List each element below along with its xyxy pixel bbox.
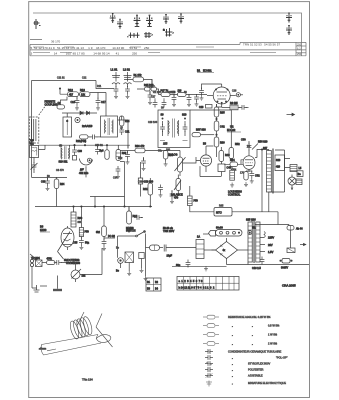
- resistor R61: [79, 207, 89, 237]
- wire af input run: [145, 151, 180, 158]
- divider ladder C42: [214, 117, 225, 131]
- capacitor C34: [116, 166, 121, 179]
- svg-text:R65: R65: [219, 205, 224, 208]
- svg-text:S12: S12: [30, 142, 35, 145]
- svg-text:4k7: 4k7: [69, 94, 74, 97]
- rod dimension label: [39, 347, 56, 351]
- tube B1 label: [197, 69, 214, 73]
- header tick: [30, 39, 42, 41]
- svg-text:CONTROL: CONTROL: [228, 194, 241, 197]
- volume pot R40: [168, 154, 186, 173]
- svg-text:R11: R11: [97, 85, 102, 88]
- svg-text:ECH81: ECH81: [203, 69, 212, 73]
- svg-text:R24: R24: [125, 120, 130, 123]
- terminal box Bo1: [297, 171, 303, 177]
- label U2 ECL82: [227, 125, 241, 133]
- svg-text:B6: B6: [40, 225, 44, 229]
- diode GR2: [82, 111, 93, 128]
- wire top rail: [32, 80, 97, 82]
- svg-text:TRN 51 52 53 54 55 56 57: TRN 51 52 53 54 55 56 57: [243, 43, 280, 47]
- svg-text:COUPLING: COUPLING: [45, 104, 58, 107]
- ground mains: [144, 276, 148, 281]
- capacitor C17: [96, 93, 107, 111]
- svg-text:C10 2.5: C10 2.5: [252, 267, 261, 270]
- legend electrolytic capacitor: [206, 381, 286, 387]
- svg-text:R1 27k: R1 27k: [134, 74, 143, 77]
- resistor R34: [54, 177, 65, 206]
- capacitor C40: [160, 121, 165, 136]
- tube B1 ECH81: [207, 84, 236, 104]
- resistor R27: [161, 89, 171, 96]
- wire T5 top: [252, 220, 289, 225]
- pointer a2: [300, 243, 306, 245]
- resistor R31: [105, 145, 109, 160]
- svg-text:„: „: [252, 325, 253, 328]
- svg-text:C8 470: C8 470: [56, 169, 64, 172]
- svg-text:S10: S10: [182, 114, 187, 117]
- svg-text:TRn 134: TRn 134: [82, 378, 93, 382]
- svg-text:R54: R54: [230, 159, 235, 162]
- svg-text:3 14: 3 14 165 85 17 85 14 68 95 14 41 250: [31, 51, 138, 55]
- capacitor C56: [102, 235, 116, 251]
- svg-text:2xAA119: 2xAA119: [82, 124, 93, 128]
- svg-text:„: „: [232, 369, 233, 372]
- label mains voltage: [163, 227, 175, 233]
- oscillator label: [30, 140, 35, 146]
- capacitor C33: [41, 177, 50, 190]
- resistor R1: [133, 74, 144, 82]
- inductor L1: [111, 68, 121, 85]
- capacitor C15: [125, 84, 130, 99]
- resistor R41: [143, 183, 153, 195]
- resistor R36: [135, 145, 145, 153]
- resistor R14: [57, 102, 65, 109]
- node HT4: [150, 206, 151, 207]
- svg-text:CONDENSATEUR CERAMIQUE TUBUL: CONDENSATEUR CERAMIQUE TUBULAIRE: [228, 350, 281, 354]
- legend resistor 0.25W: [203, 315, 271, 319]
- svg-text:250: 250: [297, 43, 302, 46]
- svg-text:BF: BF: [80, 168, 84, 172]
- svg-text:452 kc/s: 452 kc/s: [79, 172, 89, 175]
- output transformer T4 secondary: [275, 155, 285, 171]
- capacitor C23: [171, 91, 176, 107]
- resistor R57: [244, 172, 248, 187]
- resistor R28: [178, 89, 187, 96]
- secondary tap 225V: [260, 232, 274, 240]
- node HT1: [73, 206, 74, 207]
- wire if bottom: [32, 162, 68, 177]
- leader R56: [252, 144, 258, 150]
- capacitor C27: [151, 96, 157, 108]
- wire triode anode: [206, 145, 214, 147]
- svg-text:R32: R32: [118, 157, 123, 160]
- svg-text:R35: R35: [220, 112, 225, 115]
- wire mixer grid: [118, 116, 129, 149]
- capacitor C67: [252, 257, 264, 271]
- svg-text:C39 4n7: C39 4n7: [138, 181, 148, 184]
- svg-text:1.5V: 1.5V: [268, 250, 274, 254]
- svg-text:C26: C26: [232, 90, 237, 93]
- svg-text:R52: R52: [235, 143, 240, 146]
- terminal box Bo2: [296, 179, 302, 185]
- svg-text:R56 820: R56 820: [258, 141, 268, 144]
- svg-text:Ah 44: Ah 44: [296, 228, 303, 231]
- pickup terminal box: [30, 257, 42, 267]
- wire af drops: [150, 166, 200, 206]
- capacitor C14: [114, 84, 119, 99]
- svg-text:AJUSTABLE: AJUSTABLE: [248, 374, 263, 378]
- capacitor C26b: [199, 105, 212, 110]
- terminal strip TB1: [196, 236, 216, 259]
- svg-text:CRA 2085: CRA 2085: [282, 284, 296, 288]
- svg-text:EZ80: EZ80: [40, 228, 47, 232]
- svg-text:170: 170: [240, 172, 245, 175]
- ferrite rod tip loop: [96, 335, 111, 343]
- capacitor C50: [241, 139, 251, 151]
- wire osc to IFT: [39, 145, 131, 149]
- legend styroflex capacitor: [205, 361, 270, 366]
- legend ceramic capacitor: [205, 349, 281, 354]
- svg-text:B1: B1: [197, 69, 201, 73]
- resistor R13: [80, 88, 91, 97]
- mains plug Bo: [116, 236, 123, 273]
- voltage selector VS1: [203, 227, 242, 237]
- socket symbol SK2: [144, 32, 153, 38]
- trap coil F1: [63, 113, 72, 137]
- svg-text:NTC: NTC: [216, 211, 222, 215]
- aerial leader line: [39, 105, 46, 115]
- secondary tap 20V: [260, 243, 273, 247]
- svg-text:POLYESTER: POLYESTER: [248, 368, 264, 372]
- capacitor C25: [194, 94, 199, 106]
- svg-text:5 51 12 170 41 9 51 15 43 1: 5 51 12 170 41 9 51 15 43 170 41 13 1 9 …: [31, 46, 150, 50]
- node HT2: [94, 206, 95, 207]
- svg-text:P50: P50: [194, 200, 199, 203]
- capacitor C60: [54, 260, 62, 265]
- svg-text:R39: R39: [220, 142, 225, 145]
- svg-text:35n: 35n: [158, 150, 163, 153]
- svg-text:36 170: 36 170: [51, 40, 61, 44]
- svg-text:„: „: [252, 343, 253, 346]
- socket symbol SK1: [127, 33, 140, 39]
- svg-text:≤5mm: ≤5mm: [39, 347, 46, 351]
- svg-text:C50: C50: [241, 139, 246, 142]
- transistor pinout TS3: [134, 15, 141, 27]
- svg-text:20V: 20V: [268, 243, 273, 247]
- svg-text:R36 47k: R36 47k: [135, 145, 145, 148]
- capacitor C36: [141, 157, 146, 171]
- svg-text:C17: C17: [101, 101, 106, 104]
- pot R71: [71, 269, 86, 279]
- pointer a: [287, 113, 295, 116]
- svg-text:C16: C16: [71, 101, 76, 104]
- voltage table row 1 mid rules: [33, 46, 214, 48]
- capacitor C16: [71, 97, 80, 111]
- resistor R37: [192, 133, 214, 137]
- svg-text:863: 863: [78, 221, 83, 224]
- capacitor C52: [246, 171, 260, 184]
- label loudness: [228, 191, 242, 197]
- indicator lamp LA1: [248, 227, 256, 235]
- valve table legend box: [146, 278, 161, 291]
- resistor R38: [163, 151, 174, 167]
- header strip top rule: [33, 13, 302, 56]
- svg-text:„: „: [232, 343, 233, 346]
- legend paper capacitor: [205, 355, 288, 360]
- resistor R60: [71, 207, 83, 228]
- svg-text:L2 S2: L2 S2: [123, 68, 130, 72]
- svg-text:„: „: [232, 325, 233, 328]
- fuse F1: [146, 245, 164, 250]
- resistor R24: [120, 116, 131, 126]
- svg-text:„: „: [232, 382, 233, 385]
- antenna coil winding: [69, 316, 94, 340]
- wire AF input: [120, 150, 135, 152]
- svg-text:DC 32: DC 32: [108, 235, 115, 238]
- capacitor C38b: [138, 162, 153, 197]
- capacitor C29: [161, 98, 166, 110]
- ferrite rod left end: [41, 345, 43, 356]
- crystal X1: [34, 19, 41, 29]
- svg-text:C29 100: C29 100: [148, 121, 158, 124]
- oscillator coil box: [30, 146, 39, 158]
- legend resistor 2W: [203, 342, 278, 346]
- svg-text:5p6: 5p6: [100, 150, 105, 153]
- capacitor C65: [164, 245, 196, 258]
- output transformer T4: [263, 147, 271, 192]
- svg-text:C55: C55: [73, 242, 78, 245]
- trimmer C7: [31, 158, 38, 174]
- transformer T4 core: [272, 149, 273, 194]
- svg-text:C26: C26: [199, 106, 204, 109]
- svg-text:S28: S28: [276, 159, 281, 162]
- svg-text:470k: 470k: [231, 169, 237, 172]
- ground bus: [204, 266, 208, 271]
- svg-text:1 W 5%: 1 W 5%: [268, 333, 278, 337]
- ferrite rod body: [42, 335, 102, 356]
- resistor R33: [116, 145, 127, 160]
- svg-text:MW 803: MW 803: [196, 128, 206, 132]
- resistor R25: [144, 84, 157, 91]
- svg-text:8k2: 8k2: [96, 231, 101, 234]
- svg-text:C34: C34: [113, 177, 118, 180]
- wire T4 to LS: [285, 159, 293, 178]
- IF transformer T1: [59, 145, 70, 163]
- label B6: [40, 225, 50, 233]
- svg-text:0.5 W 5%: 0.5 W 5%: [268, 324, 280, 328]
- svg-text:MINIATURE ELECTROLYTIQUE: MINIATURE ELECTROLYTIQUE: [248, 381, 286, 385]
- wire screen drop: [120, 145, 128, 196]
- svg-text:50µ: 50µ: [85, 242, 90, 245]
- capacitor C25b: [199, 88, 204, 101]
- svg-text:„: „: [232, 375, 233, 378]
- ferrite aerial unit box: [29, 117, 39, 143]
- svg-text:"POL-UP": "POL-UP": [276, 356, 288, 360]
- bridge rectifier GR5: [212, 238, 249, 265]
- svg-text:R6 1k5: R6 1k5: [230, 102, 238, 105]
- secondary tap 15V: [260, 250, 274, 254]
- coil leader a: [78, 312, 85, 325]
- transistor pinout TS8: [286, 25, 292, 35]
- svg-text:R2 220: R2 220: [153, 91, 161, 94]
- svg-text:C21: C21: [125, 131, 130, 134]
- label mains switch: [126, 227, 136, 233]
- voltage table right box text: [297, 43, 302, 56]
- capacitor C45: [218, 162, 232, 177]
- mains transformer T5 primary: [246, 219, 256, 263]
- terminal bar TB2: [53, 282, 62, 291]
- capacitor C47: [170, 190, 175, 204]
- svg-text:C33: C33: [41, 181, 46, 184]
- svg-text:R21(P18): R21(P18): [76, 140, 86, 143]
- svg-text:U2: U2: [230, 125, 234, 129]
- capacitor C19: [88, 135, 101, 140]
- resistor R70: [42, 257, 55, 264]
- wire box top out: [190, 110, 231, 139]
- svg-text:R3 1k: R3 1k: [168, 91, 175, 94]
- svg-text:TRN 220V: TRN 220V: [163, 230, 175, 233]
- capacitor C41: [183, 121, 188, 136]
- svg-text:C12: C12: [82, 77, 87, 80]
- voltage table frame: [30, 42, 306, 55]
- capacitor C31: [95, 145, 104, 154]
- svg-text:80µ: 80µ: [176, 264, 181, 267]
- svg-text:L1 S1: L1 S1: [111, 68, 118, 72]
- loudspeaker LS: [288, 177, 296, 190]
- wire tone stub: [57, 276, 59, 283]
- svg-text:R12: R12: [68, 88, 73, 92]
- wire mains right: [145, 234, 147, 277]
- transistor pinout TS6: [178, 14, 184, 24]
- svg-text:C11 82: C11 82: [57, 77, 65, 80]
- wire osc rail: [124, 79, 152, 88]
- wire bottom supply bus: [172, 262, 309, 266]
- resistor R54: [230, 159, 238, 167]
- node IF2: [97, 145, 98, 146]
- capacitor C30b: [72, 145, 77, 160]
- svg-text:„: „: [232, 363, 233, 366]
- svg-text:3065Y: 3065Y: [281, 267, 289, 270]
- diode GR1: [62, 111, 97, 115]
- svg-text:470k: 470k: [47, 257, 53, 260]
- svg-text:1M LOG: 1M LOG: [168, 154, 178, 157]
- svg-text:R41: R41: [143, 188, 148, 191]
- svg-text:R60: R60: [78, 217, 83, 220]
- svg-text:C30 82: C30 82: [95, 144, 103, 147]
- fuse F2: [287, 225, 303, 249]
- resistor R62: [96, 207, 106, 237]
- IF transformer T2 box: [158, 110, 190, 148]
- balance pot R44: [171, 179, 183, 200]
- resistor R21: [76, 135, 88, 143]
- divider ladder R39a: [214, 131, 225, 152]
- tube B4 output pentode: [243, 150, 257, 172]
- transistor pinout TS2: [117, 19, 123, 29]
- svg-text:C52: C52: [255, 175, 260, 178]
- capacitor C38: [158, 185, 163, 198]
- tube B2: [80, 158, 93, 165]
- wire left drop: [31, 81, 33, 163]
- svg-text:R34: R34: [60, 183, 65, 186]
- wire pickup ground: [32, 248, 102, 288]
- transistor pinout TS1: [110, 13, 116, 23]
- svg-text:C30: C30: [78, 150, 83, 153]
- svg-text:C27: C27: [151, 96, 156, 99]
- svg-text:1k2: 1k2: [82, 275, 87, 278]
- ground pickup: [34, 285, 48, 292]
- svg-text:RESISTANCE AGGLOM. 0.25 W 5: RESISTANCE AGGLOM. 0.25 W 5%: [228, 315, 271, 319]
- box internal detail: [160, 118, 188, 146]
- capacitor C55: [73, 237, 90, 250]
- svg-text:420: 420: [276, 166, 281, 169]
- label IF: [79, 168, 89, 176]
- svg-text:250: 250: [297, 53, 302, 56]
- svg-text:2 W 5%: 2 W 5%: [268, 342, 278, 346]
- capacitor C35: [125, 151, 130, 165]
- transistor pinout TS7: [286, 13, 292, 23]
- legend polyester capacitor: [205, 367, 264, 372]
- dial table: [177, 277, 239, 291]
- fuse F4: [280, 259, 292, 270]
- legend resistor 1W: [203, 333, 278, 337]
- svg-text:„: „: [232, 357, 233, 360]
- svg-text:P50: P50: [85, 231, 90, 234]
- wire B1 cathode: [217, 104, 222, 107]
- node T4: [261, 149, 262, 150]
- wire anode to T4: [257, 150, 285, 212]
- resistor R45: [188, 186, 215, 212]
- svg-text:„: „: [252, 334, 253, 337]
- svg-text:STYROFLEX 500V: STYROFLEX 500V: [248, 362, 270, 366]
- IF transformer S7 S8: [101, 116, 118, 137]
- wire mixer row: [137, 79, 207, 94]
- resistor R12: [68, 88, 79, 97]
- divider ladder R38a: [214, 104, 225, 117]
- svg-text:R13: R13: [80, 88, 85, 92]
- svg-text:b 14 12 11 9 8 7 5 4 3 2 1 0: b 14 12 11 9 8 7 5 4 3 2 1 0 2: [179, 286, 215, 290]
- node IF1: [74, 145, 75, 146]
- svg-text:470: 470: [174, 196, 179, 199]
- interference capacitor C62: [125, 252, 134, 276]
- mains transformer T5 secondary: [256, 222, 260, 262]
- svg-text:10µF: 10µF: [167, 255, 173, 258]
- tube B6 EZ80: [61, 226, 74, 250]
- resistor R43: [219, 147, 230, 162]
- resistor R52: [229, 139, 240, 159]
- node A1: [59, 88, 60, 89]
- wire pot to triode: [183, 157, 201, 163]
- wire R12-R13 row: [60, 89, 106, 117]
- capacitor C22: [148, 91, 153, 105]
- node HT3: [124, 206, 125, 207]
- svg-text:R43: R43: [225, 154, 230, 157]
- svg-text:1k6: 1k6: [178, 89, 183, 92]
- capacitor C58: [134, 215, 143, 220]
- svg-text:290: 290: [166, 149, 171, 152]
- svg-text:1A: 1A: [197, 236, 200, 239]
- transistor pinout TS5: [163, 14, 169, 24]
- legend resistor 0.5W: [203, 324, 280, 328]
- wire anode drop: [216, 152, 218, 157]
- choke L5: [290, 165, 302, 172]
- capacitor C24: [187, 94, 192, 106]
- wire B2 cathode: [85, 166, 87, 177]
- legend air trimmer capacitor: [205, 373, 263, 378]
- capacitor C63: [139, 253, 144, 273]
- capacitor C66: [176, 260, 190, 268]
- selector arrow: [58, 232, 71, 260]
- capacitor C21: [119, 126, 130, 135]
